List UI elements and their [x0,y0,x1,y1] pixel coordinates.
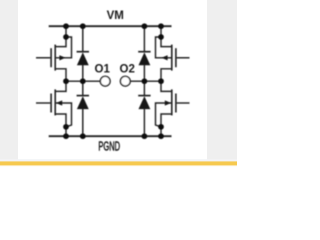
transistor Q3 (high-side right) [156,26,190,81]
node PGND-Q4 [158,133,164,139]
svg-text:O1: O1 [95,63,111,75]
wire anode to PGND [82,109,84,137]
wire source to PGND [65,127,67,136]
channel bar [54,45,56,71]
wire drain to VM [160,26,162,37]
source elbow [161,114,171,127]
node VM-Q1 [63,23,69,29]
node Q2 source/body [63,124,69,130]
body tie loop [56,37,72,58]
node PGND-D4 [142,133,148,139]
body tie loop [56,103,72,127]
node Q4 source/body [158,124,164,130]
wire: VM top rail [49,25,172,27]
drain elbow from O2 node [161,81,171,91]
left gray margin [0,0,18,160]
diode D3 (upper right) [138,26,150,81]
node VM-Q3 [158,23,164,29]
svg-text:PGND: PGND [98,141,120,154]
body tie loop [156,37,172,58]
diode D4 (lower right) [138,81,150,136]
gate bar [50,94,52,113]
gray strip above gold rule [0,159,237,161]
cathode bar [77,95,89,97]
node O1-Q1/Q2 [63,78,69,84]
source elbow [56,114,66,127]
diode triangle [139,52,151,65]
gate lead [177,57,190,59]
channel bar [171,45,173,71]
terminal O1 circle [100,76,110,86]
gate lead [36,102,50,104]
node O2-Q3/Q4 [158,78,164,84]
wire cathode to VM [82,26,84,51]
gate lead [177,102,190,104]
junction dots [63,23,164,139]
page background [0,0,237,167]
wire cathode to O2 node [143,81,145,95]
wire: output O1 row [66,80,100,82]
cathode bar [138,51,150,53]
gold rule [0,161,237,165]
body arrow [165,100,171,105]
wire anode to PGND [143,109,145,137]
transistor Q1 (high-side left) [36,26,72,81]
wire: output O2 row [130,80,161,82]
terminal O2 circle [120,76,130,86]
wire cathode to O1 node [82,81,84,95]
cathode bar [77,51,89,53]
diode triangle [77,52,89,65]
transistor Q2 (low-side left) [36,81,72,136]
gate bar [50,48,52,67]
wire anode to O1 node [82,65,84,82]
diode D2 (lower left) [77,81,89,136]
node O2-D3/D4 [142,78,148,84]
gate lead [36,57,50,59]
transistor Q4 (low-side right) [156,81,190,136]
source elbow [56,69,66,81]
node O1-D1/D2 [80,78,86,84]
wire: PGND bottom rail [49,135,172,137]
node Q3 drain/body [158,34,164,40]
drain elbow from O1 node [56,81,66,91]
wire anode to O2 node [143,65,145,82]
drain elbow [161,37,171,47]
diode D1 (upper left) [77,26,89,81]
channel bar [54,89,56,115]
drain elbow [56,37,66,47]
body arrow [161,55,167,60]
node PGND-Q2 [63,133,69,139]
node VM-D3 [142,23,148,29]
gate bar [175,48,177,67]
wire cathode to VM [143,26,145,51]
wire drain to VM [65,26,67,37]
node Q1 drain/body [63,34,69,40]
gate bar [175,94,177,113]
diode triangle [77,96,89,109]
svg-text:VM: VM [107,10,124,22]
body tie loop [156,103,172,127]
body arrow [59,55,65,60]
diode triangle [139,96,151,109]
svg-text:O2: O2 [120,63,135,75]
source elbow [161,69,171,81]
right gray margin [207,0,237,160]
channel bar [171,89,173,115]
cathode bar [138,95,150,97]
node VM-D1 [80,23,86,29]
wire source to PGND [160,127,162,136]
node PGND-D2 [80,133,86,139]
body arrow [56,100,62,105]
